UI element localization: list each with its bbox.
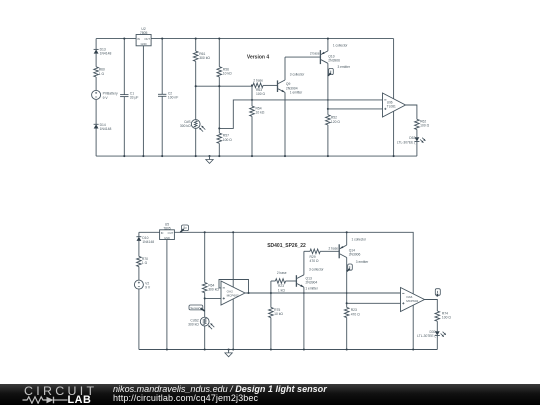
resistor R61 300k <box>195 39 197 52</box>
svg-text:1N4148: 1N4148 <box>100 127 112 131</box>
resistor R75 10k <box>269 307 274 317</box>
transistor Q14 2N3906 <box>338 244 340 258</box>
wire OA6 V- pin <box>412 305 414 349</box>
svg-text:1 kΩ: 1 kΩ <box>278 288 285 292</box>
wire U96 V- pin <box>393 111 395 156</box>
svg-text:300 kΩ: 300 kΩ <box>199 56 210 60</box>
op-amp OA2 MCP602 <box>221 281 245 305</box>
node dots wire86 <box>195 85 197 87</box>
regulator U2 7805 <box>136 35 151 46</box>
transistor Q9 2N3904 <box>277 80 279 92</box>
source PVBattery 9V <box>92 90 101 99</box>
svg-text:300 kΩ: 300 kΩ <box>188 322 199 326</box>
wire OA2 V- pin <box>232 299 234 350</box>
wire OA2 output line <box>245 292 401 294</box>
svg-text:300 kΩ: 300 kΩ <box>180 124 191 128</box>
node SensorV dot <box>204 297 206 299</box>
capacitor C2 100nF <box>161 39 163 95</box>
svg-text:OUT: OUT <box>168 231 174 235</box>
wire OA2 feedback loop <box>219 280 249 294</box>
svg-text:LTL-307EE (: LTL-307EE ( <box>417 334 436 338</box>
flag 5v <box>182 225 189 231</box>
svg-text:IN: IN <box>161 231 164 235</box>
resistor R56 10k <box>218 39 220 67</box>
svg-text:3 collector: 3 collector <box>309 267 324 271</box>
photoresistor CdS 300k <box>195 86 197 119</box>
flag Q14 emitter probe <box>348 264 353 270</box>
wire top rail right (U2 OUT to op-amp supply) <box>151 38 394 40</box>
svg-text:2 base: 2 base <box>310 52 320 56</box>
diode D10 1N4148 <box>138 232 140 236</box>
ground symbol bottom <box>228 350 230 353</box>
svg-text:2N3906: 2N3906 <box>328 58 340 62</box>
op-amp OA6 MCP602 <box>401 288 425 312</box>
svg-text:100 Ω: 100 Ω <box>420 124 430 128</box>
svg-text:470 Ω: 470 Ω <box>351 312 361 316</box>
wire R23 node vertical <box>270 281 272 307</box>
svg-text:SD401_SP26_22: SD401_SP26_22 <box>267 243 306 249</box>
svg-text:LAB: LAB <box>68 394 92 404</box>
svg-text:3 collector: 3 collector <box>290 72 305 76</box>
svg-text:300 kΩ: 300 kΩ <box>208 287 219 291</box>
svg-text:1 collector: 1 collector <box>333 43 348 47</box>
svg-text:3 emitter: 3 emitter <box>338 65 351 69</box>
wire minus input line <box>252 99 383 101</box>
svg-text:2N3904: 2N3904 <box>286 86 298 90</box>
resistor R29 470 Ohm <box>310 249 320 254</box>
svg-text:1 emitter: 1 emitter <box>290 91 303 95</box>
wire top rail left (battery to U2 IN) <box>96 38 136 40</box>
svg-text:1N4148: 1N4148 <box>142 240 154 244</box>
wire U2 GND to ground rail <box>142 46 144 156</box>
svg-text:GND: GND <box>141 42 147 46</box>
flag OA6 output probe <box>435 289 440 296</box>
rail junction dots <box>123 155 125 157</box>
resistor R23b 470 Ohm <box>344 307 349 317</box>
svg-text:100 Ω: 100 Ω <box>256 92 266 96</box>
resistor + diode glyph <box>23 396 47 402</box>
ground symbol top <box>209 156 211 159</box>
transistor Q10 2N3906 <box>319 50 321 64</box>
transistor Q13 2N3904 <box>295 275 297 287</box>
svg-text:1 emitter: 1 emitter <box>305 287 318 291</box>
resistor R60 1 Ohm <box>94 67 99 77</box>
wire ground rail top circuit <box>96 155 417 157</box>
resistor R62 100 Ohm <box>415 119 420 129</box>
LED D30 LTL-307EE <box>435 331 440 335</box>
svg-text:OUT: OUT <box>144 37 150 41</box>
wire U96 V+ pin <box>393 39 395 99</box>
wire ground rail bottom circuit <box>139 349 437 351</box>
svg-text:3 emitter: 3 emitter <box>356 260 369 264</box>
svg-text:LTL-307EE (: LTL-307EE ( <box>397 140 416 144</box>
wire U96 output <box>406 105 417 119</box>
wire divider node <box>196 85 253 87</box>
resistor R57 100 Ohm <box>217 133 222 143</box>
flag SensorV <box>189 305 203 310</box>
wire rail2 left (battery to U5 IN) <box>139 231 160 233</box>
diode D13 1N4148 <box>95 39 97 50</box>
wire Q13 collector <box>303 251 305 274</box>
svg-text:TL081: TL081 <box>387 104 396 108</box>
wire R63 node to R54 <box>251 85 253 100</box>
wire Q14 collector to rail <box>346 232 348 245</box>
svg-text:120 Ω: 120 Ω <box>331 120 341 124</box>
resistor R23 1k <box>271 280 276 282</box>
svg-text:2N3906: 2N3906 <box>349 253 361 257</box>
svg-text:100 Ω: 100 Ω <box>223 138 233 142</box>
resistor R63 100 Ohm <box>253 83 263 88</box>
wire Q13 emitter to ground <box>303 287 305 349</box>
op-amp U96 TL081 <box>383 93 406 117</box>
rail2 junction dots <box>166 348 168 350</box>
LED D52 LTL-307EE <box>415 137 420 141</box>
svg-text:7805: 7805 <box>163 226 171 230</box>
capacitor C1 33uF <box>123 39 125 95</box>
svg-text:1 collector: 1 collector <box>352 237 367 241</box>
svg-text:10 kΩ: 10 kΩ <box>274 312 283 316</box>
svg-text:33 µF: 33 µF <box>130 96 139 100</box>
svg-text:IN: IN <box>137 37 140 41</box>
regulator U5 7805 <box>160 230 175 240</box>
wire Q14 emitter down <box>346 258 348 308</box>
svg-text:10 kΩ: 10 kΩ <box>256 111 265 115</box>
resistor R52 120 Ohm <box>326 115 331 125</box>
svg-text:Version 4: Version 4 <box>247 54 269 60</box>
diode D14 1N4148 <box>94 123 99 125</box>
svg-text:100 Ω: 100 Ω <box>442 316 452 320</box>
svg-text:1 Ω: 1 Ω <box>142 261 148 265</box>
svg-text:2 base: 2 base <box>253 78 263 82</box>
source V2 9V <box>134 280 143 289</box>
wire jog R57 to minus line <box>219 100 252 128</box>
wire rail2 right (U5 OUT onward) <box>174 232 413 293</box>
svg-text:2N3904: 2N3904 <box>306 281 318 285</box>
top rail junction dots <box>123 38 125 40</box>
resistor R54 10k <box>251 100 253 106</box>
svg-text:9 V: 9 V <box>145 285 151 289</box>
svg-text:470 Ω: 470 Ω <box>310 259 320 263</box>
svg-text:7805: 7805 <box>140 31 148 35</box>
wire Q10 emitter down <box>327 63 329 115</box>
photoresistor CdS2 300k <box>200 317 209 326</box>
flag Q10 emitter probe <box>329 68 334 74</box>
resistor R64 300k <box>204 232 206 282</box>
wire plus input OA2 <box>205 297 221 299</box>
svg-text:2 base: 2 base <box>277 271 287 275</box>
svg-text:1N4148: 1N4148 <box>100 52 112 56</box>
footer bar <box>0 384 540 405</box>
svg-text:2 base: 2 base <box>329 247 339 251</box>
svg-text:MCP602: MCP602 <box>227 294 239 298</box>
wire plus input OA6 <box>347 302 401 304</box>
wire OA2 V+ pin <box>232 232 234 287</box>
svg-text:100 nF: 100 nF <box>168 95 178 99</box>
svg-text:9 V: 9 V <box>103 96 109 100</box>
wire OA6 output <box>425 300 438 312</box>
svg-text:10 kΩ: 10 kΩ <box>223 71 232 75</box>
svg-text:GND: GND <box>164 236 170 240</box>
wire plus input line <box>328 108 383 110</box>
svg-text:MCP602: MCP602 <box>406 299 418 303</box>
resistor R74 100 Ohm <box>435 311 440 321</box>
svg-text:5v: 5v <box>183 226 187 230</box>
wire Q9 emitter to ground <box>284 92 286 156</box>
wire U5 GND to ground rail <box>166 240 168 350</box>
CircuitLab logo <box>22 383 102 404</box>
resistor R70 1 Ohm <box>137 256 142 266</box>
svg-text:SensorV: SensorV <box>190 306 201 310</box>
svg-text:1 Ω: 1 Ω <box>99 72 105 76</box>
wire Q10 collector to rail <box>327 39 329 51</box>
wire Q9 collector <box>284 57 286 80</box>
